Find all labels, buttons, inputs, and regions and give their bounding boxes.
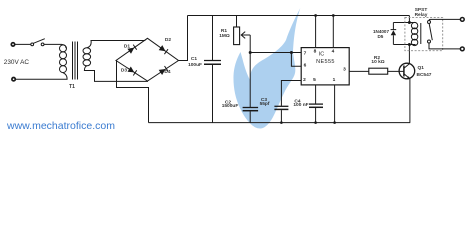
svg-text:1: 1 — [333, 77, 336, 83]
node C3 ground — [280, 121, 283, 124]
wire wiper to pin 7 — [250, 52, 301, 54]
svg-text:230V AC: 230V AC — [4, 59, 30, 66]
svg-text:www.mechatrofice.com: www.mechatrofice.com — [6, 120, 115, 132]
node pin 6 branch — [290, 51, 293, 54]
wire pin 3 to R2 — [349, 70, 369, 72]
svg-text:D2: D2 — [165, 37, 171, 43]
svg-text:1500uF: 1500uF — [222, 103, 239, 109]
wire top rail to relay — [408, 16, 410, 23]
wire secondary bottom to bridge — [84, 66, 147, 82]
svg-text:D3: D3 — [121, 67, 127, 73]
wire neutral to transformer — [15, 73, 67, 80]
wire pin 2 to C3 — [281, 81, 301, 106]
wire moving contact to terminal — [429, 43, 460, 49]
wire bridge negative to ground rail — [117, 61, 149, 123]
svg-text:7: 7 — [304, 51, 307, 57]
svg-text:4: 4 — [332, 49, 335, 55]
node pin 1 ground — [333, 121, 336, 124]
svg-text:T1: T1 — [69, 84, 75, 90]
svg-text:5: 5 — [313, 77, 316, 83]
wire branch to pin 6 — [291, 53, 301, 67]
transformer T1 secondary winding — [83, 48, 91, 66]
svg-text:6: 6 — [304, 63, 307, 69]
relay fixed contact — [428, 21, 431, 24]
svg-text:Relay: Relay — [415, 12, 428, 18]
diode D4 — [159, 66, 168, 75]
node pin 8 rail — [314, 14, 317, 17]
switch S1 — [31, 39, 45, 46]
wire R2 to Q1 base — [388, 70, 404, 72]
capacitor C2 — [243, 108, 259, 123]
relay coil — [411, 22, 417, 45]
svg-text:D4: D4 — [164, 69, 170, 75]
wire pin 5 to C4 — [315, 85, 317, 104]
transistor Q1 — [399, 63, 415, 79]
terminal top — [460, 18, 464, 22]
node C4 ground — [314, 121, 317, 124]
transformer T1 core — [73, 42, 78, 80]
capacitor C1 — [204, 16, 221, 123]
ground rail — [149, 122, 411, 124]
transformer T1 primary winding — [60, 45, 67, 73]
wire Q1 collector to relay — [408, 45, 410, 64]
terminal bottom — [460, 47, 464, 51]
svg-text:Q1: Q1 — [418, 65, 425, 71]
svg-text:1MΩ: 1MΩ — [219, 33, 230, 39]
svg-text:D5: D5 — [377, 34, 383, 39]
diode D1 — [127, 45, 136, 54]
relay dashed box — [405, 17, 443, 50]
relay moving contact — [428, 40, 431, 43]
svg-text:D1: D1 — [124, 43, 130, 49]
wire relay top link — [393, 22, 415, 24]
svg-text:IC: IC — [319, 52, 325, 58]
svg-text:BC547: BC547 — [417, 72, 432, 78]
svg-text:55pf: 55pf — [260, 101, 270, 107]
wire wiper junction to C2 — [249, 53, 251, 108]
op-amp timer IC NE555 box — [301, 48, 349, 85]
node pin 4 rail — [332, 14, 335, 17]
watermark swoosh — [233, 8, 300, 129]
top rail — [188, 15, 410, 17]
node relay bottom — [408, 43, 411, 46]
svg-text:8: 8 — [314, 49, 317, 55]
wire Q1 emitter to ground — [409, 79, 411, 123]
capacitor C3 — [274, 106, 288, 122]
potentiometer R1 body — [234, 16, 240, 45]
diode D5 1N4007 — [391, 23, 397, 45]
wire fixed contact to terminal — [429, 19, 460, 20]
svg-text:100uF: 100uF — [188, 62, 202, 68]
relay lever — [429, 24, 432, 40]
AC terminal bottom — [12, 78, 15, 81]
wire pin 1 to ground — [334, 85, 336, 123]
wire secondary top to bridge — [87, 41, 146, 48]
svg-text:3: 3 — [343, 67, 346, 73]
relay core — [420, 23, 422, 44]
resistor R2 — [369, 68, 388, 74]
svg-text:100 nF: 100 nF — [293, 102, 308, 108]
diode D3 — [128, 67, 137, 76]
wire relay bottom link — [393, 44, 415, 46]
diode D2 — [159, 45, 168, 54]
node relay top — [408, 21, 411, 24]
wire bridge positive to top rail — [179, 16, 188, 61]
capacitor C4 — [309, 104, 323, 123]
wire switch to transformer — [44, 44, 66, 48]
svg-text:10 kΩ: 10 kΩ — [371, 59, 384, 65]
svg-text:NE555: NE555 — [316, 59, 335, 65]
potentiometer R1 wiper arrow — [241, 32, 250, 53]
svg-text:C1: C1 — [191, 56, 197, 62]
wire live to switch — [15, 43, 31, 45]
svg-text:2: 2 — [303, 77, 306, 83]
node wiper junction — [249, 51, 252, 54]
wire pin 8 to top rail — [315, 16, 317, 48]
wire pin 4 to top rail — [332, 16, 334, 48]
bridge rectifier diamond — [116, 38, 179, 81]
AC terminal top — [11, 43, 14, 46]
